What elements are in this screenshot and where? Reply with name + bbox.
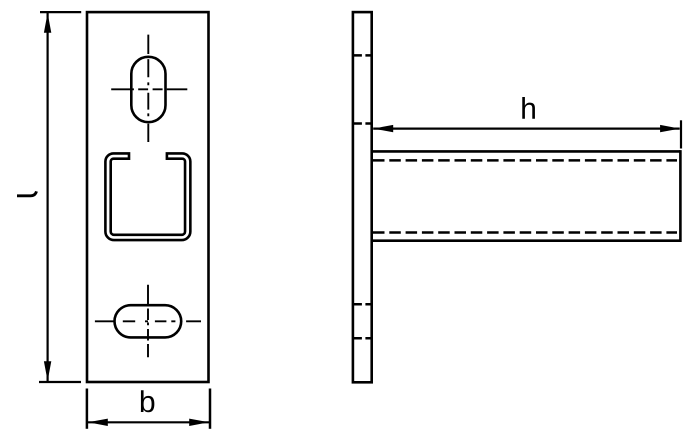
dimension l: dimension line [46, 13, 48, 381]
channel profile cross-section (front view) black band [108, 156, 188, 237]
bottom slot S2 (horizontal obround hole) [115, 305, 182, 337]
top slot horizontal centerline [111, 88, 187, 90]
dimension h: right arrowhead [660, 125, 680, 132]
side view hidden slot edge (top slot lower) [353, 122, 373, 125]
dimension b: left extension line [86, 389, 89, 429]
side view channel top edge [372, 150, 681, 153]
dimension h: right extension line [680, 120, 682, 148]
dimension h: dimension line [373, 128, 680, 130]
side view plate outline [353, 12, 372, 382]
dimension b: dimension line [88, 421, 210, 423]
dimension h: left arrowhead [373, 125, 393, 132]
dimension b: left arrowhead [88, 419, 108, 426]
side view hidden slot edge (top slot upper) [353, 54, 373, 57]
dimension l: bottom extension line [39, 381, 81, 383]
side view channel bottom edge [372, 239, 681, 242]
side view hidden slot edge (bottom slot upper) [353, 303, 373, 306]
top slot vertical centerline [147, 35, 149, 142]
dimension b: right arrowhead [189, 419, 209, 426]
side view channel hidden top inner line [373, 159, 677, 162]
dimension b: right extension line [209, 389, 212, 429]
dimension l: bottom arrowhead [44, 361, 51, 381]
side view channel right end edge [679, 150, 682, 242]
front view plate outline [87, 12, 209, 382]
bottom slot vertical centerline [147, 285, 149, 358]
side view hidden slot edge (bottom slot lower) [353, 337, 373, 340]
dimension l: top arrowhead [44, 13, 51, 33]
top slot S1 (vertical obround hole) [131, 57, 165, 122]
dimension l: label l (rotated glyph with tail) [17, 191, 37, 195]
dimension b: label b [141, 390, 155, 412]
dimension l: top extension line [40, 11, 81, 13]
side view channel hidden bottom inner line [373, 231, 677, 234]
dimension h: label h [522, 97, 535, 119]
bottom slot horizontal centerline [95, 320, 201, 322]
channel profile cross-section white core [108, 156, 188, 237]
